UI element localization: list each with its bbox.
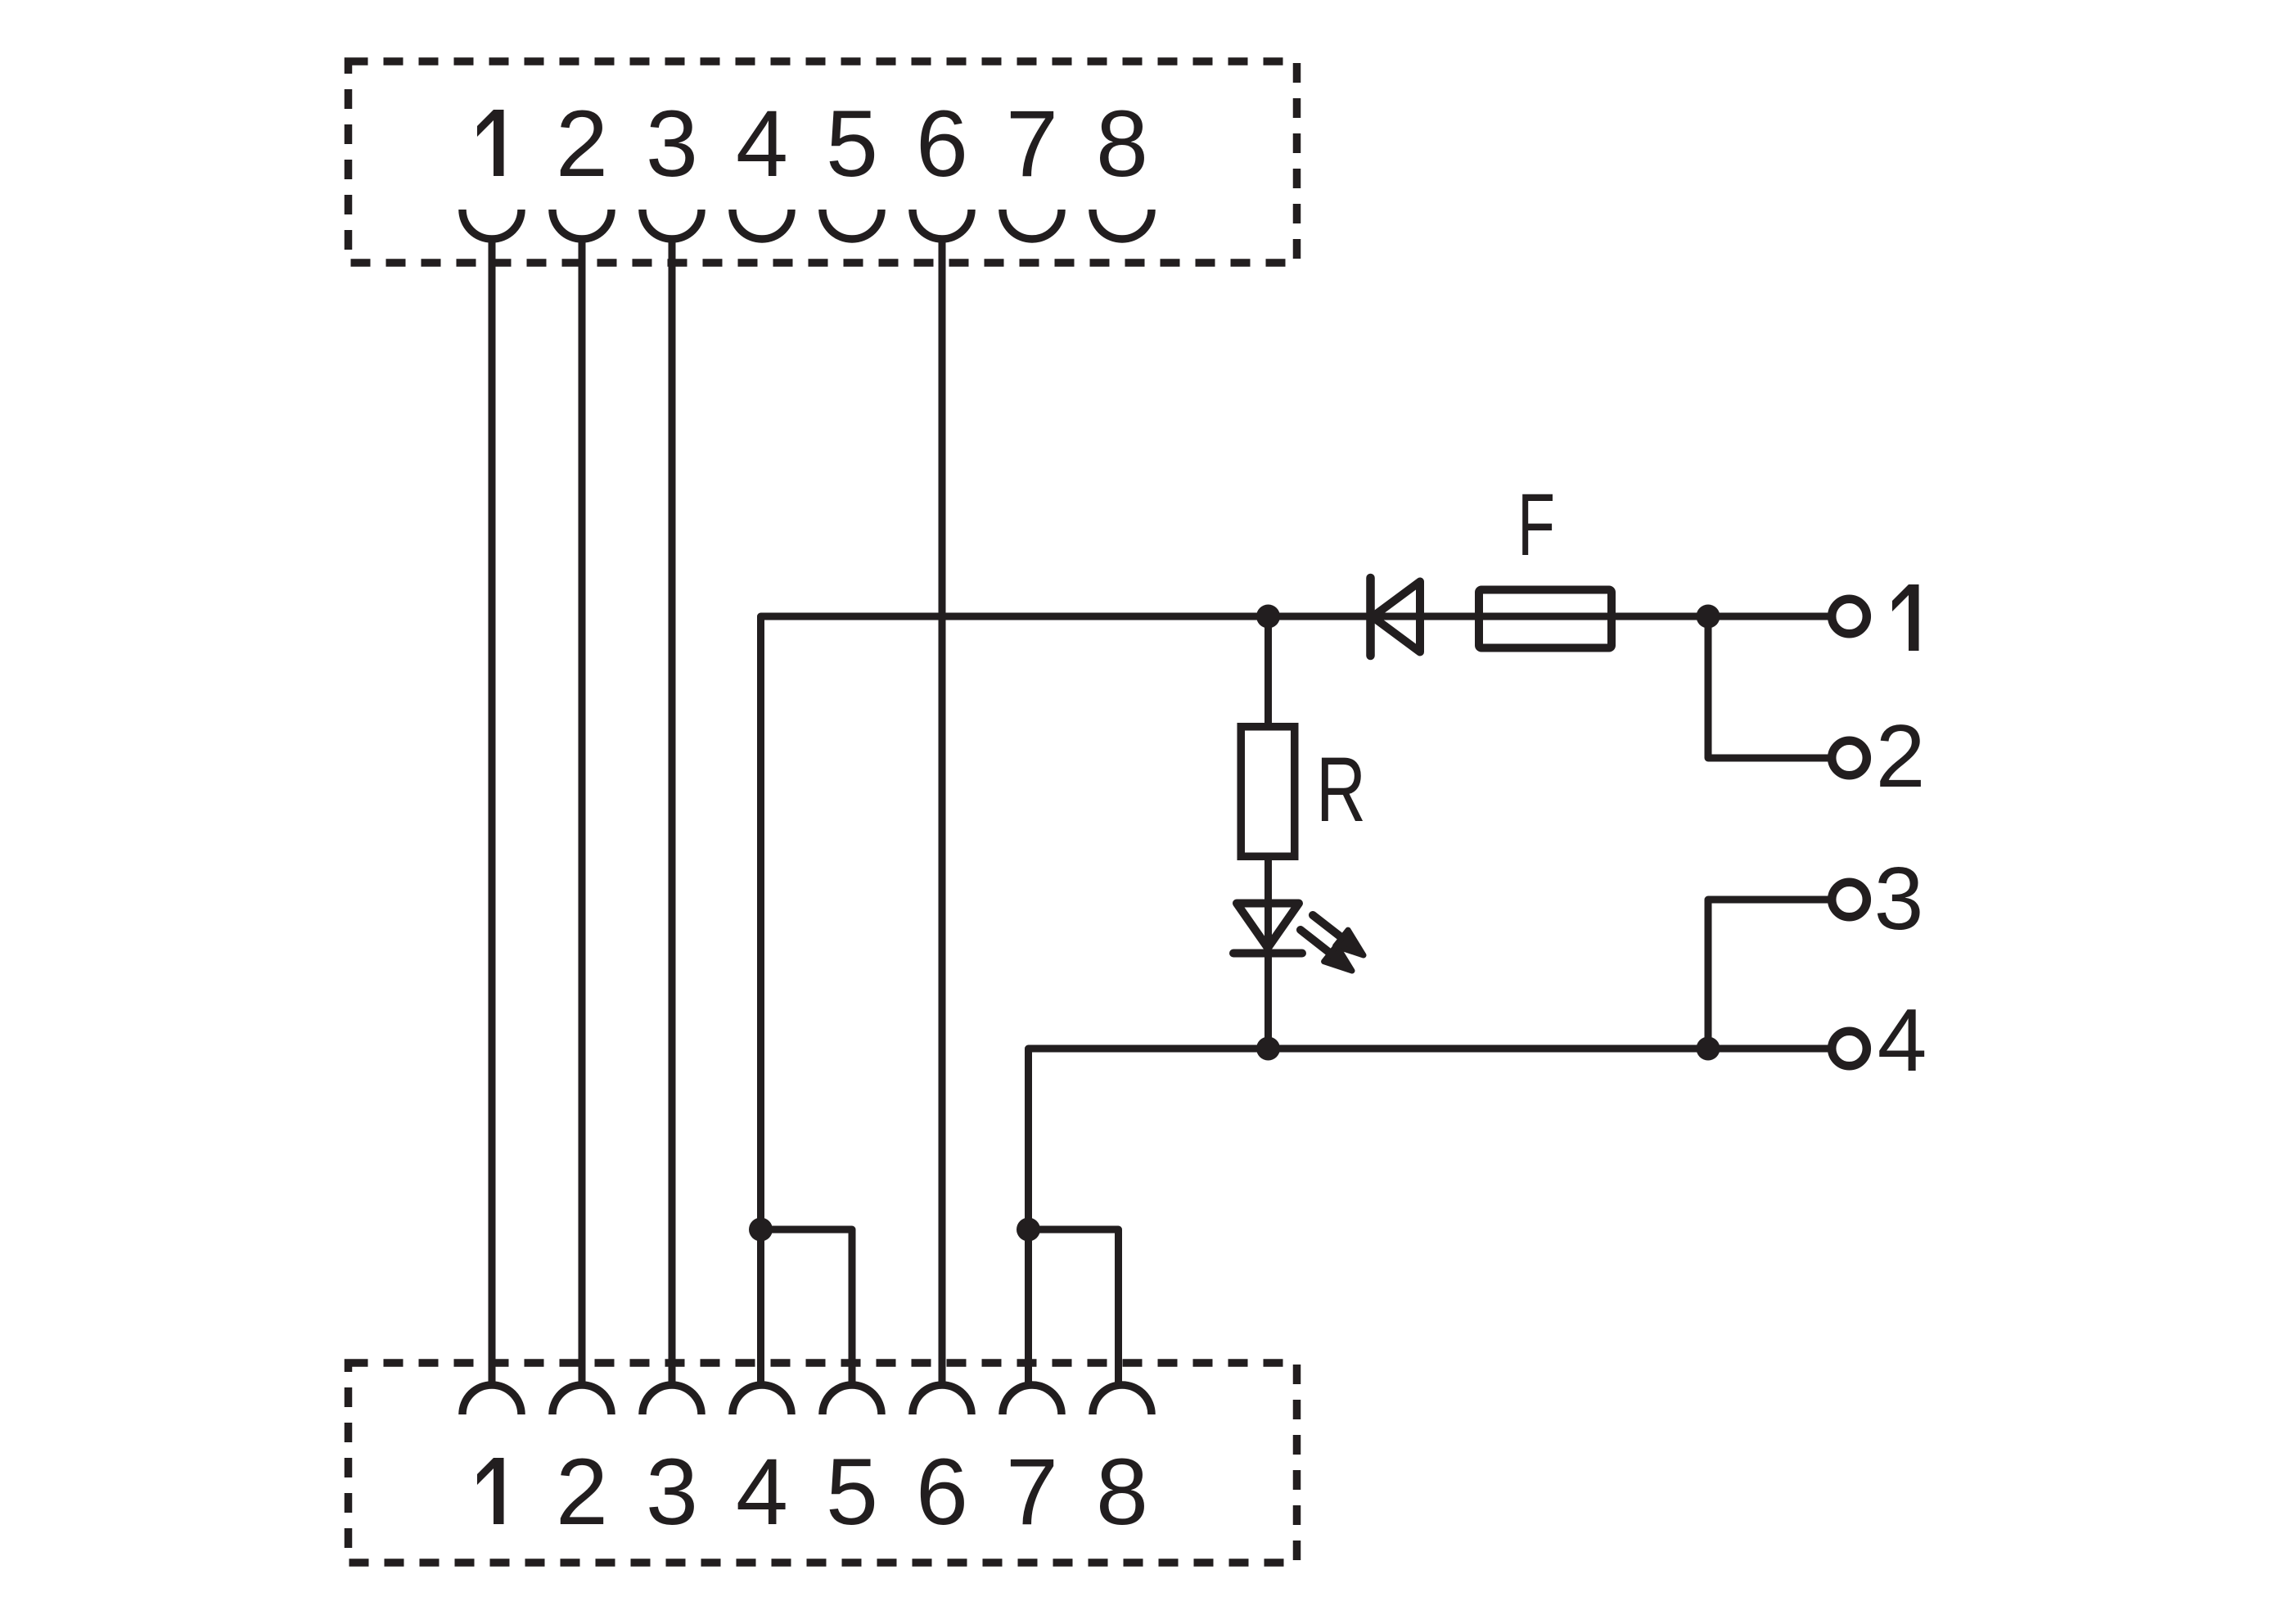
- fuse F (body): [1479, 590, 1612, 648]
- top terminal socket arc 5: [823, 210, 881, 239]
- diode D (cathode bar): [1366, 578, 1375, 656]
- top terminal socket arc 1: [462, 210, 521, 239]
- LED light emission arrow (lower): [1301, 930, 1352, 971]
- bottom terminal socket arc 2: [552, 1385, 611, 1414]
- bottom terminal socket arc 8: [1093, 1385, 1152, 1414]
- svg-text:6: 6: [916, 1440, 968, 1545]
- top terminal socket arc 6: [913, 210, 971, 239]
- svg-text:2: 2: [1876, 706, 1926, 806]
- svg-text:2: 2: [556, 92, 608, 196]
- wire: top terminal 3 to bottom terminal 3: [669, 239, 676, 1387]
- wire: branch from node to bottom terminal 5: [761, 1229, 853, 1387]
- bottom terminal pin number 1: [477, 1458, 504, 1524]
- LED light emission arrow (upper): [1313, 915, 1364, 955]
- junction node (LED / wire2): [1256, 1037, 1280, 1061]
- bottom terminal socket arc 4: [733, 1385, 791, 1414]
- wire: top terminal 6 to bottom terminal 6: [939, 239, 946, 1387]
- top terminal socket arc 4: [733, 210, 791, 239]
- wire: branch from node to bottom terminal 8: [1029, 1229, 1119, 1387]
- junction node (wire2 / contacts 3-4): [1697, 1037, 1720, 1061]
- LED (cathode bar): [1233, 950, 1302, 958]
- contact label 1: [1892, 584, 1919, 651]
- svg-text:7: 7: [1006, 1440, 1058, 1545]
- wire: top terminal 1 to bottom terminal 1: [489, 239, 496, 1387]
- wire: top terminal 2 to bottom terminal 2: [579, 239, 586, 1387]
- junction node (terminal 4/5 branch): [749, 1218, 773, 1242]
- contact 3 (open circle): [1832, 882, 1867, 918]
- junction node (terminal 7/8 branch): [1017, 1218, 1040, 1242]
- svg-text:5: 5: [826, 1440, 878, 1545]
- wire: resistor bottom through LED to lower net: [1264, 860, 1272, 1049]
- wire: node up and right to contact 3: [1708, 900, 1832, 1049]
- svg-text:3: 3: [646, 92, 698, 196]
- svg-text:4: 4: [736, 92, 788, 196]
- svg-text:8: 8: [1096, 92, 1148, 196]
- top terminal socket arc 7: [1003, 210, 1062, 239]
- bottom terminal socket arc 6: [913, 1385, 971, 1414]
- top connector block (dashed outline): [349, 61, 1297, 263]
- bottom terminal socket arc 5: [823, 1385, 881, 1414]
- wire: node to contact 4: [1708, 1045, 1832, 1053]
- contact 1 (open circle): [1832, 599, 1867, 634]
- wire: junction down to resistor R: [1264, 616, 1272, 723]
- bottom terminal socket arc 7: [1003, 1385, 1062, 1414]
- junction node (wire1 / contacts 1-2): [1697, 605, 1720, 629]
- top terminal pin number 1: [477, 110, 504, 176]
- top terminal socket arc 2: [552, 210, 611, 239]
- svg-text:5: 5: [826, 92, 878, 196]
- wire: node to contact 1: [1708, 613, 1831, 620]
- diode D (triangle): [1373, 582, 1420, 652]
- top terminal socket arc 3: [642, 210, 701, 239]
- svg-text:2: 2: [556, 1440, 608, 1545]
- wire: node down and right to contact 2: [1708, 616, 1831, 758]
- svg-text:8: 8: [1096, 1440, 1148, 1545]
- contact 4 (open circle): [1832, 1031, 1867, 1067]
- svg-text:3: 3: [1874, 849, 1924, 949]
- bottom terminal socket arc 3: [642, 1385, 701, 1414]
- svg-text:3: 3: [646, 1440, 698, 1545]
- svg-text:4: 4: [1878, 990, 1927, 1090]
- LED (triangle): [1237, 904, 1299, 949]
- svg-text:4: 4: [736, 1440, 788, 1545]
- svg-text:F: F: [1517, 475, 1555, 574]
- resistor R (body): [1241, 727, 1295, 857]
- wire: net of contact 1 (bottom terminal 4 up, across to diode/fuse): [761, 616, 1709, 1387]
- wire: net of contact 4 (bottom terminal 7 up, across under LED): [1029, 1049, 1709, 1387]
- svg-text:6: 6: [916, 92, 968, 196]
- junction node (wire1 / resistor branch): [1256, 605, 1280, 629]
- top terminal socket arc 8: [1093, 210, 1152, 239]
- svg-text:R: R: [1316, 738, 1366, 841]
- svg-text:7: 7: [1006, 92, 1058, 196]
- bottom terminal socket arc 1: [462, 1385, 521, 1414]
- bottom connector block (dashed outline): [349, 1363, 1297, 1563]
- contact 2 (open circle): [1832, 741, 1867, 776]
